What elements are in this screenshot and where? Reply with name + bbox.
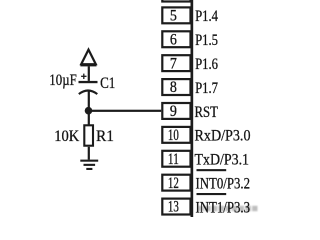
svg-text:INT1/P3.3: INT1/P3.3 [196, 199, 251, 216]
capacitor C1 [79, 81, 98, 94]
svg-text:RST: RST [195, 104, 219, 121]
wire R1 to ground [88, 147, 90, 160]
svg-text:9: 9 [170, 103, 177, 120]
wire junction to RST pin 9 [89, 110, 162, 112]
svg-text:11: 11 [168, 151, 179, 168]
svg-text:10µF: 10µF [49, 72, 77, 89]
pin 9 [162, 103, 190, 120]
pin 10 [162, 127, 190, 144]
IC body left edge [191, 0, 194, 217]
svg-text:C1: C1 [100, 75, 115, 92]
svg-text:R1: R1 [96, 128, 114, 145]
svg-text:10K: 10K [54, 128, 79, 145]
svg-text:TxD/P3.1: TxD/P3.1 [195, 152, 250, 169]
pin 13 [162, 199, 190, 216]
svg-text:P1.7: P1.7 [195, 80, 218, 97]
svg-text:INT0/P3.2: INT0/P3.2 [196, 176, 251, 193]
svg-text:P1.4: P1.4 [195, 8, 218, 25]
pin 6 [162, 31, 190, 48]
svg-text:12: 12 [168, 175, 179, 192]
plus polarity mark [81, 74, 86, 79]
svg-text:RxD/P3.0: RxD/P3.0 [195, 128, 251, 145]
wire junction to R1 [88, 111, 90, 126]
svg-text:13: 13 [168, 199, 179, 216]
resistor R1 [84, 125, 93, 145]
svg-text:P1.6: P1.6 [195, 56, 218, 73]
power VCC symbol [80, 50, 96, 67]
svg-text:10: 10 [168, 127, 179, 144]
svg-text:8: 8 [170, 79, 177, 96]
watermark CSDN [199, 206, 258, 211]
svg-text:7: 7 [170, 55, 177, 72]
node junction dot [85, 107, 93, 115]
svg-text:5: 5 [170, 8, 177, 25]
svg-text:P1.5: P1.5 [195, 32, 218, 49]
pin 4 box (partial, cropped at top) [162, 0, 190, 2]
pin 11 [162, 151, 190, 168]
ground symbol [80, 160, 98, 170]
wire VCC to C1 [88, 66, 90, 81]
pin 12 [162, 175, 190, 192]
pin 7 [162, 55, 190, 72]
pin label INT1/P3.3 with overline [196, 193, 251, 216]
pin label INT0/P3.2 with overline [196, 169, 251, 192]
pin 8 [162, 79, 190, 96]
pin 5 [162, 7, 190, 24]
wire C1 to junction [88, 91, 90, 111]
svg-text:6: 6 [170, 31, 177, 48]
